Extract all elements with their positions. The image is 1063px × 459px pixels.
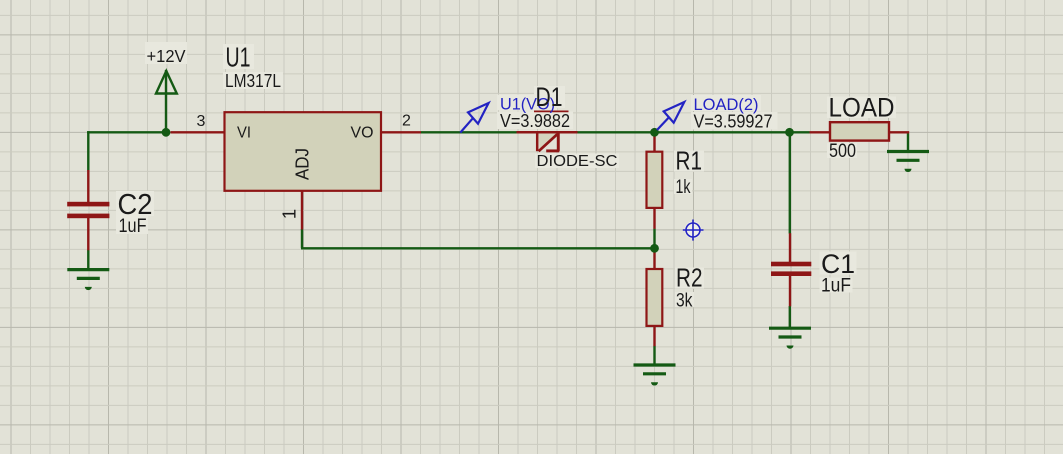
svg-text:DIODE-SC: DIODE-SC xyxy=(537,153,618,170)
svg-text:1k: 1k xyxy=(676,177,691,198)
svg-text:1: 1 xyxy=(279,209,300,219)
svg-text:+12V: +12V xyxy=(147,46,186,66)
svg-text:1uF: 1uF xyxy=(119,216,147,237)
svg-text:D1: D1 xyxy=(536,82,563,112)
svg-text:V=3.9882: V=3.9882 xyxy=(500,111,570,131)
svg-text:3: 3 xyxy=(197,113,206,130)
svg-text:LM317L: LM317L xyxy=(225,71,281,91)
svg-text:V=3.59927: V=3.59927 xyxy=(694,111,773,131)
svg-text:R1: R1 xyxy=(676,146,703,176)
svg-text:2: 2 xyxy=(402,113,411,130)
svg-text:ADJ: ADJ xyxy=(293,148,313,180)
svg-text:3k: 3k xyxy=(676,291,693,312)
svg-text:1uF: 1uF xyxy=(821,276,851,297)
svg-text:U1: U1 xyxy=(226,41,251,72)
svg-text:VI: VI xyxy=(237,125,251,142)
svg-text:VO: VO xyxy=(351,125,374,142)
svg-text:500: 500 xyxy=(829,141,856,162)
svg-text:R2: R2 xyxy=(676,263,703,293)
svg-text:LOAD: LOAD xyxy=(829,93,895,123)
